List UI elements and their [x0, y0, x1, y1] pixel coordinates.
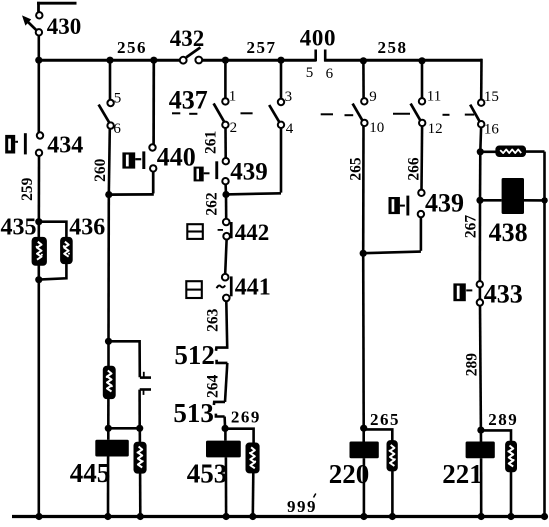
wire 265 branch: [364, 429, 393, 516]
wire 442 to 441: [225, 240, 226, 274]
svg-text:266: 266: [405, 157, 422, 181]
top bus 256/257/258: [36, 59, 482, 62]
svg-text:512: 512: [174, 340, 215, 370]
node 435/436 top junction: [35, 218, 42, 225]
svg-text:259: 259: [19, 177, 36, 201]
contact 440: [122, 143, 195, 172]
node 269 junction: [222, 425, 229, 432]
node 445 loop top: [105, 338, 112, 345]
contact 442: [187, 219, 269, 245]
switch 430: [22, 12, 81, 39]
contact 441: [186, 274, 270, 301]
svg-text:12: 12: [428, 121, 443, 137]
wire 513 to node: [223, 417, 226, 429]
resistor 435: [32, 238, 46, 265]
contact 512: [216, 346, 227, 363]
wire 445 loop: [108, 341, 140, 516]
svg-text:15: 15: [484, 89, 499, 105]
node 435/436 bottom junction: [35, 276, 42, 283]
svg-text:4: 4: [286, 121, 294, 137]
wire 269 branch: [225, 429, 254, 517]
svg-text:11: 11: [427, 88, 441, 104]
relay coil 453: [224, 428, 227, 516]
wire 512 to 513: [225, 363, 227, 402]
svg-text:220: 220: [329, 459, 370, 489]
resistor 221 parallel: [506, 442, 516, 472]
svg-text:445: 445: [70, 458, 111, 488]
node 438 right: [541, 197, 547, 203]
wire 430 to bus: [37, 35, 40, 60]
wire top-left bracket: [37, 2, 77, 13]
node 445 loop bottom left: [105, 425, 112, 432]
svg-text:440: 440: [157, 143, 196, 172]
contact 11/12: [411, 88, 443, 137]
relay coil 445: [95, 440, 129, 457]
svg-text:221: 221: [442, 459, 483, 489]
svg-text:10: 10: [369, 120, 384, 136]
wire resistor 438 loop: [480, 152, 545, 517]
node 220 junction: [360, 425, 367, 432]
svg-text:256: 256: [117, 38, 147, 57]
contact 15/16: [470, 89, 499, 138]
contact 434 column wire: [37, 60, 40, 516]
contact 5/6: [99, 90, 122, 137]
contact 1/2: [214, 89, 238, 136]
node resistor 438 junction: [477, 148, 484, 155]
svg-text:436: 436: [69, 215, 105, 241]
relay coil 220: [350, 442, 379, 459]
contact 433: [453, 280, 522, 309]
resistor 445 parallel: [134, 443, 146, 473]
svg-text:434: 434: [47, 133, 83, 159]
svg-text:261: 261: [203, 131, 220, 154]
svg-text:1: 1: [229, 89, 237, 105]
resistor mid 445: [104, 367, 115, 399]
node 289 junction: [477, 427, 484, 434]
svg-text:513: 513: [173, 398, 214, 428]
svg-text:264: 264: [204, 375, 221, 399]
switch 432: [170, 26, 205, 64]
svg-text:265: 265: [348, 157, 365, 181]
node below 439: [222, 191, 229, 198]
contact 3/4: [269, 89, 294, 137]
wire 289 branch: [481, 430, 511, 516]
svg-text:5: 5: [306, 65, 314, 81]
svg-text:258: 258: [378, 38, 408, 57]
svg-text:262: 262: [203, 192, 220, 216]
svg-text:400: 400: [300, 26, 336, 51]
svg-text:9: 9: [369, 89, 377, 105]
svg-text:6: 6: [113, 121, 121, 137]
svg-text:442: 442: [235, 220, 269, 245]
contact 11/12 column: [363, 61, 422, 253]
svg-text:999: 999: [287, 497, 317, 516]
wire 440 branch: [109, 60, 154, 194]
contact 3/4 column: [226, 60, 281, 194]
contact 15/16 column: [480, 59, 482, 517]
svg-text:263: 263: [204, 308, 221, 332]
svg-text:2: 2: [230, 120, 238, 136]
svg-text:289: 289: [464, 353, 481, 377]
svg-text:16: 16: [484, 121, 500, 137]
contact 439 second: [389, 189, 465, 218]
bottom bus 999: [12, 515, 547, 518]
svg-text:430: 430: [47, 14, 82, 39]
resistor 436: [61, 238, 72, 264]
node dots on top bus: [35, 57, 425, 65]
svg-text:269: 269: [231, 408, 261, 427]
contact 9/10: [353, 89, 385, 136]
switch 400 terminals: [316, 50, 326, 62]
contact 1/2 column: [224, 60, 227, 218]
svg-text:439: 439: [230, 159, 267, 186]
svg-text:5: 5: [114, 90, 122, 106]
svg-text:6: 6: [326, 66, 334, 82]
svg-text:453: 453: [187, 458, 228, 488]
svg-text:438: 438: [489, 218, 528, 247]
resistor 438 parallel: [496, 146, 525, 156]
node 265 junction: [360, 250, 367, 257]
contact 434: [5, 132, 83, 158]
svg-text:257: 257: [247, 38, 277, 57]
svg-text:433: 433: [484, 280, 523, 309]
svg-text:260: 260: [92, 158, 109, 182]
svg-text:265: 265: [370, 410, 400, 429]
node dots on bottom bus: [35, 513, 548, 520]
svg-text:432: 432: [170, 26, 205, 51]
contact 5/6 column: [108, 60, 110, 516]
svg-text:3: 3: [285, 89, 293, 105]
node 440 bottom: [105, 191, 112, 198]
resistor 453 parallel: [246, 443, 258, 472]
node 445 loop bottom right: [136, 425, 143, 432]
svg-text:289: 289: [488, 410, 518, 429]
node 438 left: [476, 197, 483, 204]
contact 9/10 column: [362, 61, 365, 517]
contact 513: [214, 402, 225, 417]
svg-text:437: 437: [169, 86, 208, 115]
relay coil 221: [466, 442, 495, 459]
svg-text:267: 267: [462, 215, 479, 239]
wire 441 to 512: [225, 301, 228, 346]
svg-text:439: 439: [425, 189, 464, 218]
svg-text:435: 435: [1, 215, 37, 241]
wire 436 loop: [39, 222, 67, 280]
svg-text:441: 441: [235, 275, 271, 301]
dashed linkage line: [172, 113, 474, 115]
relay coil 438: [502, 178, 524, 214]
contact 439 first: [194, 158, 268, 186]
capacitor in 445 loop: [140, 372, 151, 395]
resistor 220 parallel: [387, 441, 397, 471]
